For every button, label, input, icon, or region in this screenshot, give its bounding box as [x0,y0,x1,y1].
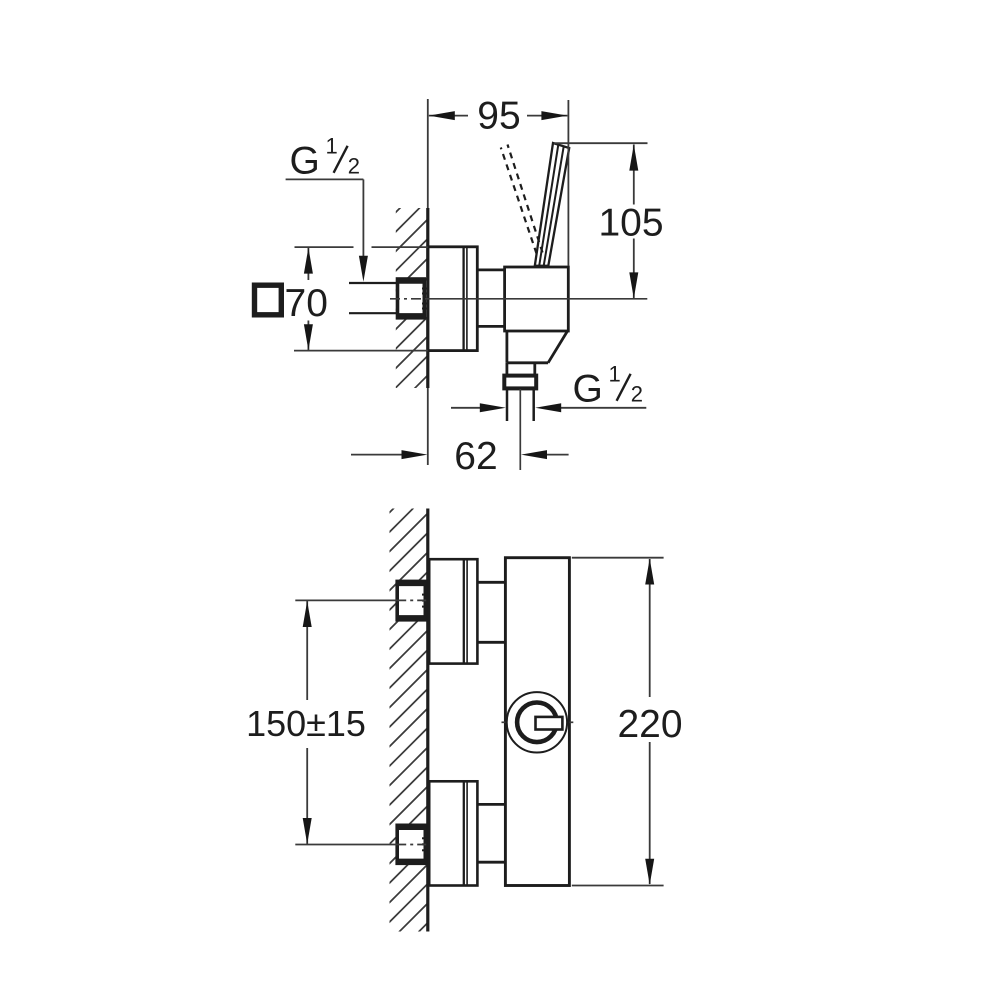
svg-text:70: 70 [285,282,328,325]
svg-text:G: G [290,140,320,183]
svg-text:62: 62 [454,435,497,478]
svg-text:G: G [573,368,603,411]
svg-text:2: 2 [631,382,643,407]
svg-text:2: 2 [348,154,360,179]
svg-text:1: 1 [326,134,338,159]
svg-text:105: 105 [598,202,663,245]
svg-text:220: 220 [617,703,682,746]
svg-text:95: 95 [477,95,520,138]
svg-text:1: 1 [609,362,621,387]
svg-text:150±15: 150±15 [246,703,366,744]
